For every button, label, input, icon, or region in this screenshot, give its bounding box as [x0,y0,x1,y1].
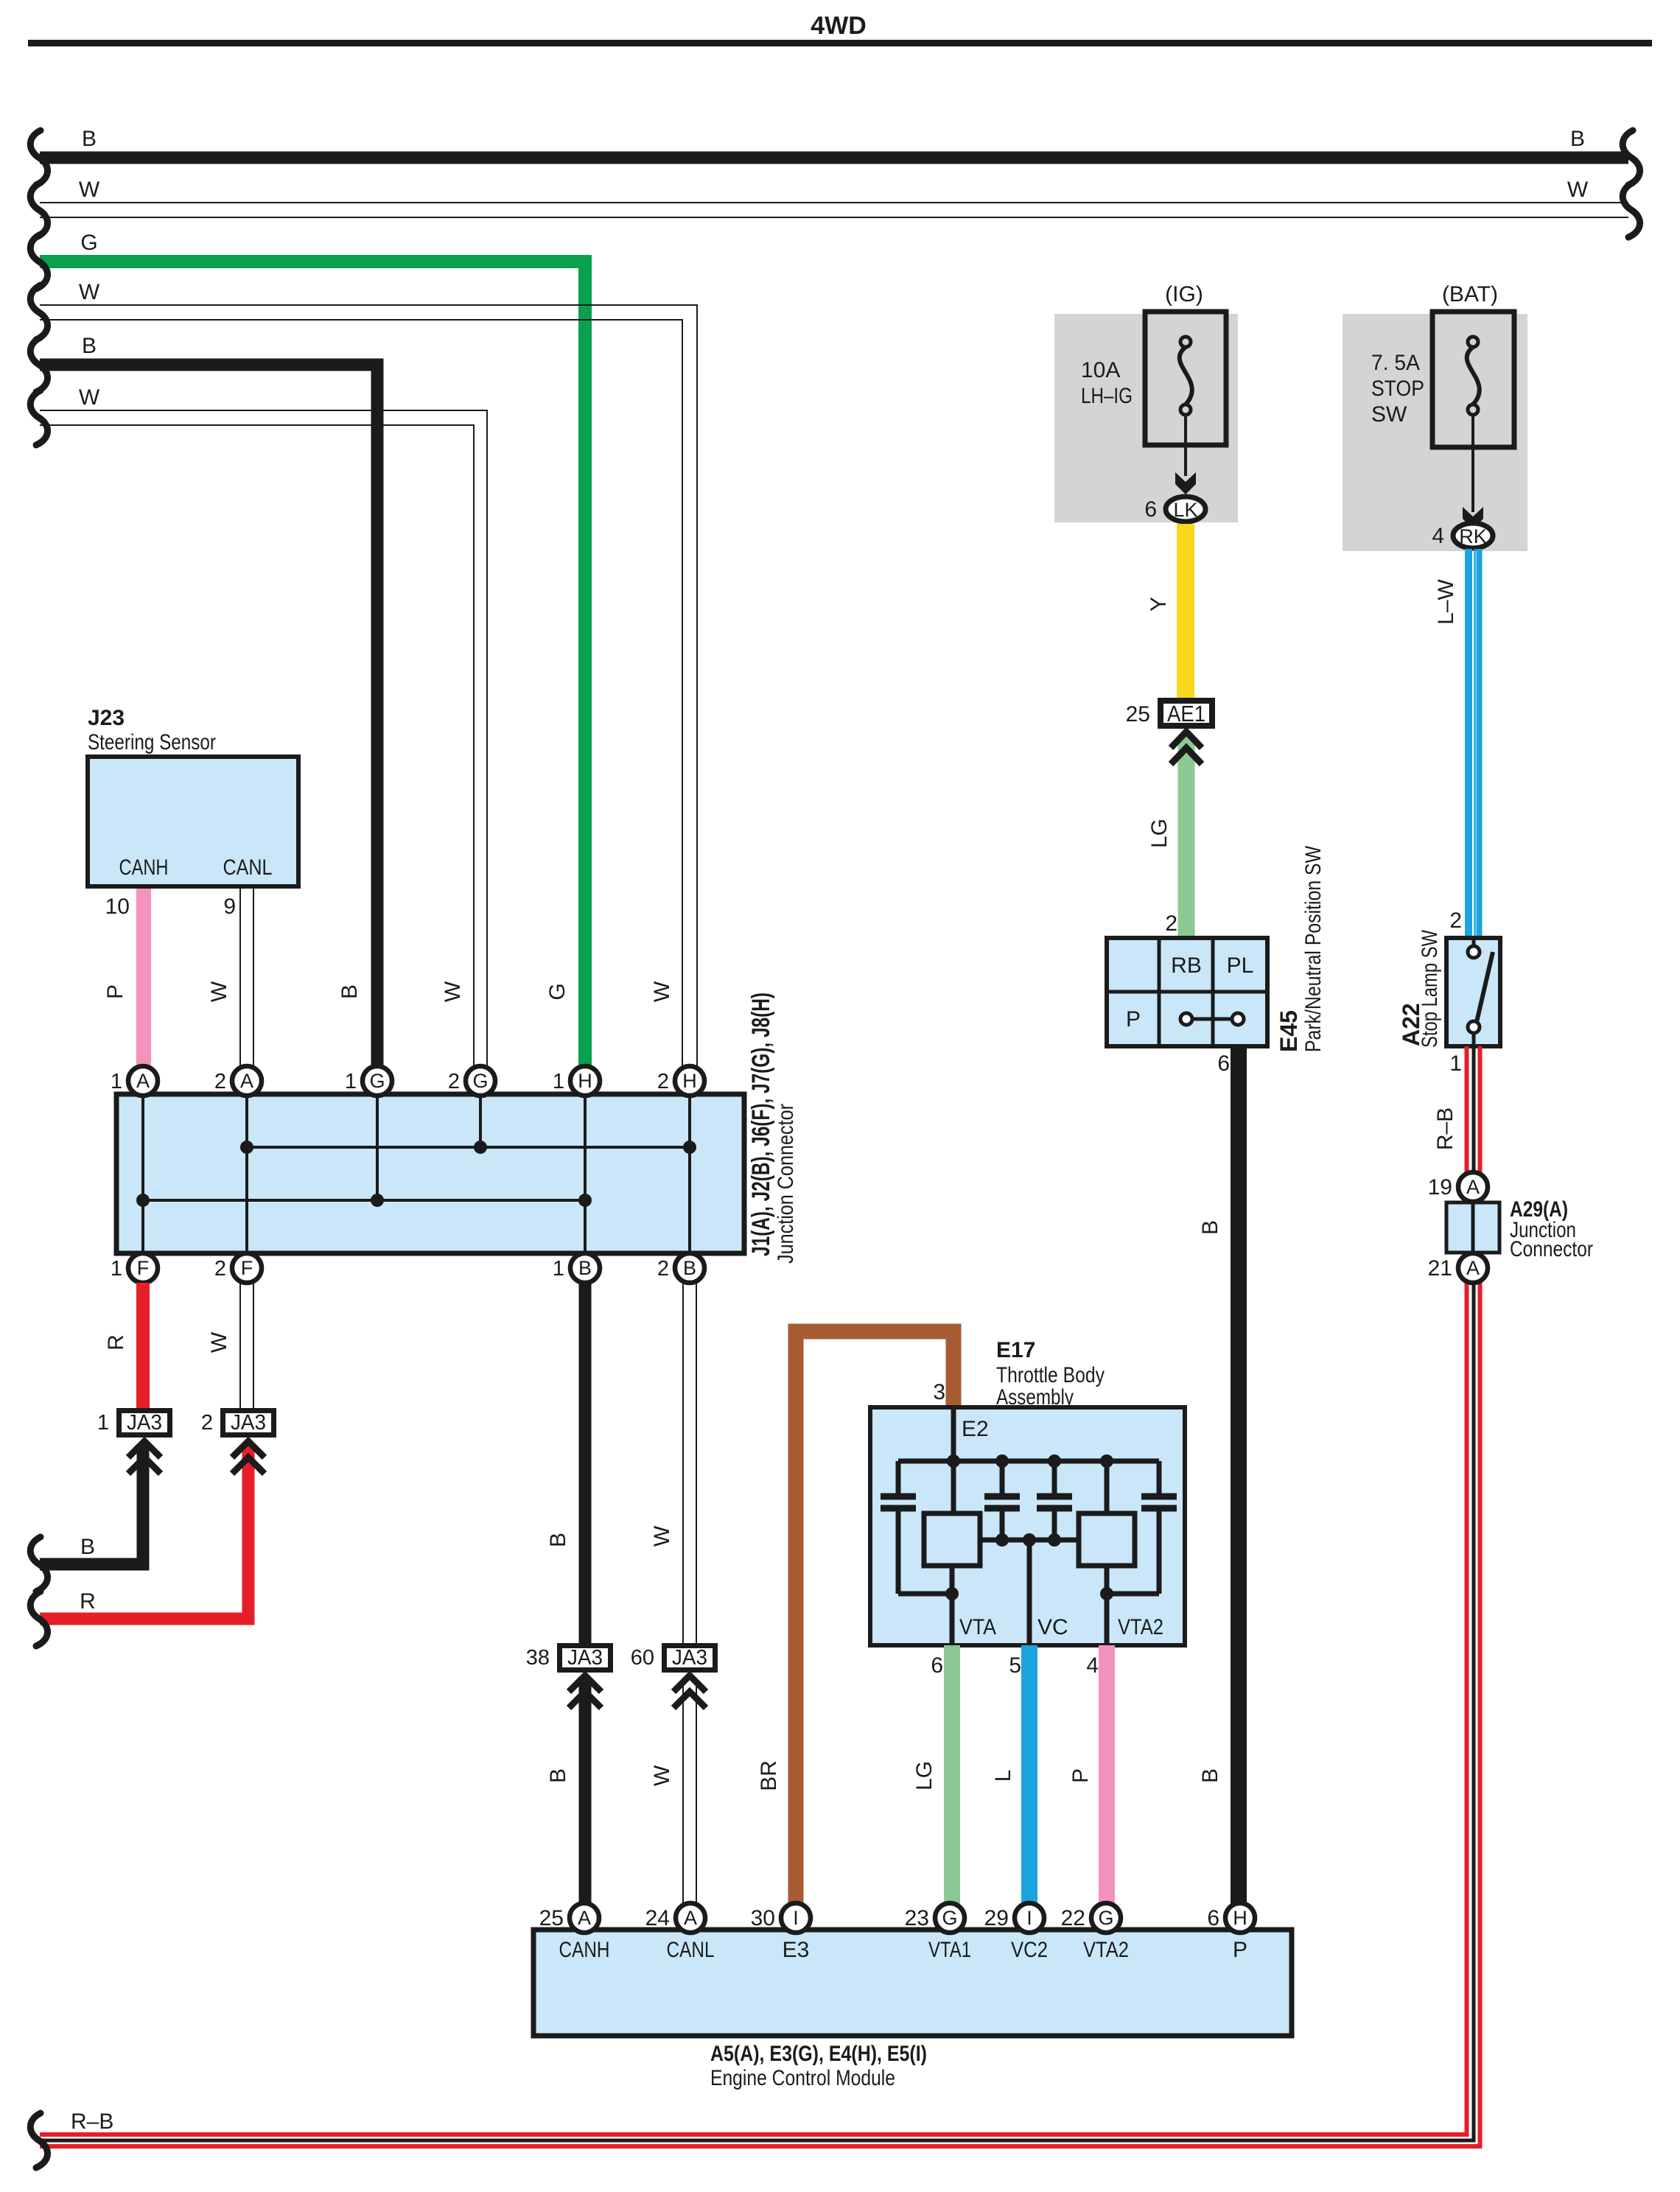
break left w2 [30,183,47,237]
wire W JA3-60 to ECM pin 24 (double line) [683,1678,696,1905]
connector pin 1F [128,1253,158,1283]
svg-text:A: A [1466,1257,1480,1279]
svg-text:CANL: CANL [223,855,273,880]
wire W to junction 2G (double line) [40,410,487,1068]
wire W junction 2F to JA3 pin 2 (double line) [240,1283,253,1411]
E17 junction dots [947,1454,960,1468]
svg-text:B: B [1570,127,1585,151]
svg-text:P: P [103,984,127,999]
svg-text:B: B [82,334,97,358]
connector pin 2A [232,1066,262,1096]
svg-text:G: G [942,1907,957,1929]
svg-text:B: B [80,1535,95,1559]
svg-text:SW: SW [1371,402,1407,427]
svg-text:A: A [578,1907,591,1929]
connector JA3 pin 38 box [560,1646,611,1670]
capacitor C2 [984,1496,1020,1508]
svg-text:21: 21 [1428,1256,1452,1281]
wire LG AE1 to E45 pin 2 [1178,737,1195,938]
break left w5 [30,337,47,392]
arrow into RK [1463,507,1483,529]
connector AE1 box [1161,701,1212,726]
fuse 7.5A element [1467,337,1480,415]
wire B from JA3 pin1 to left break [40,1444,143,1564]
arrow into LK [1175,472,1196,494]
component E45 Park/Neutral Position SW box [1107,938,1267,1046]
capacitor C3 [1037,1496,1072,1508]
connector JA3 pin 60 box [665,1646,715,1670]
svg-text:H: H [682,1070,697,1092]
wire W CANL to junction 2A (double line) [240,889,253,1068]
connector pin 2F [232,1253,262,1283]
svg-text:25: 25 [1126,702,1150,726]
svg-text:A: A [240,1070,253,1092]
svg-text:1: 1 [111,1257,122,1281]
svg-text:A: A [684,1907,697,1929]
break left R lower [30,1592,47,1646]
wire P E17 VTA2 to ECM pin22 [1099,1645,1115,1905]
svg-text:22: 22 [1061,1906,1085,1930]
sensor element VTA2 box [1079,1513,1135,1566]
svg-text:23: 23 [905,1906,929,1930]
wire B to junction 1G [40,365,377,1068]
chevron JA3-60 [673,1675,706,1708]
svg-text:9: 9 [223,894,236,919]
chevron JA3-2 [232,1441,265,1474]
svg-text:W: W [441,981,465,1002]
junction connector J1/J2/J6/J7/J8 box [116,1094,744,1253]
wire L E17 VC to ECM pin29 [1021,1645,1037,1905]
svg-text:B: B [683,1257,696,1279]
E45 cell grid [1107,938,1267,1046]
connector JA3 pin 1 box [119,1411,170,1435]
svg-text:E17: E17 [996,1338,1035,1362]
svg-text:Y: Y [1147,597,1171,612]
chevron JA3-38 [569,1675,601,1708]
svg-text:W: W [1567,178,1589,202]
capacitor C1 [881,1496,916,1508]
svg-text:E3: E3 [783,1938,810,1962]
fuse 10A element [1180,337,1192,415]
svg-text:E2: E2 [962,1417,989,1441]
svg-text:JA3: JA3 [672,1646,707,1670]
svg-text:6: 6 [931,1653,943,1678]
svg-text:E45: E45 [1275,1010,1302,1052]
svg-text:H: H [1233,1907,1247,1929]
svg-text:B: B [1198,1768,1222,1783]
wire BR ECM pin30 to E17 pin 3 [796,1331,953,1903]
connector A29(A) junction box [1446,1202,1499,1253]
svg-text:25: 25 [539,1906,564,1930]
fuse block background (BAT) [1343,314,1527,551]
svg-text:W: W [207,981,231,1002]
wire LG E17 VTA to ECM pin23 [944,1645,960,1905]
svg-text:6: 6 [1144,497,1157,522]
connector pin 2B [675,1253,704,1283]
svg-text:LG: LG [1147,819,1172,848]
svg-text:R–B: R–B [71,2109,113,2134]
break left w3 [30,234,47,289]
wire B junction 1B to JA3 pin 38 [579,1283,592,1646]
svg-text:6: 6 [1217,1051,1230,1076]
svg-text:3: 3 [933,1380,945,1404]
svg-text:VTA2: VTA2 [1118,1615,1163,1639]
svg-text:W: W [207,1331,231,1353]
wire L-W RK to A22 pin 2 [1469,549,1480,938]
svg-text:G: G [545,983,570,1000]
A29 internal wire [1471,1202,1475,1253]
svg-text:38: 38 [526,1646,550,1670]
svg-text:Throttle Body: Throttle Body [996,1363,1105,1387]
component E17 Throttle Body box [870,1407,1185,1645]
ECM pin 22G [1091,1903,1121,1933]
connector pin 2H [675,1066,704,1096]
capacitor C4 [1141,1496,1177,1508]
svg-text:F: F [241,1257,253,1279]
svg-text:B: B [1198,1220,1222,1235]
svg-text:2: 2 [448,1070,460,1093]
svg-text:G: G [80,231,97,255]
svg-text:Connector: Connector [1510,1237,1593,1261]
ECM pin 6H [1225,1903,1255,1933]
svg-text:10A: 10A [1081,358,1120,382]
svg-text:R: R [104,1334,128,1351]
svg-text:10: 10 [105,894,130,919]
connector pin 1A [128,1066,158,1096]
svg-text:7. 5A: 7. 5A [1371,351,1420,375]
svg-text:B: B [82,127,97,151]
svg-text:19: 19 [1428,1175,1452,1200]
component A22 Stop Lamp SW box [1446,938,1500,1046]
chevron JA3-1 [128,1441,161,1474]
svg-text:Engine Control Module: Engine Control Module [710,2066,895,2090]
svg-text:P: P [1233,1938,1247,1962]
svg-text:LG: LG [912,1761,937,1790]
svg-text:24: 24 [645,1906,670,1930]
svg-text:(BAT): (BAT) [1442,282,1498,307]
svg-text:W: W [79,178,100,202]
break right w2 [1623,183,1639,237]
svg-text:VTA1: VTA1 [928,1938,971,1962]
svg-text:Steering Sensor: Steering Sensor [88,730,216,754]
break left R-B [30,2113,47,2168]
svg-text:VC: VC [1037,1615,1068,1639]
wire W to junction 2H (double line) [40,305,697,1068]
connector LK oval [1166,497,1205,522]
svg-text:1: 1 [111,1070,122,1093]
E17 internal bus and branches [898,1407,1159,1645]
wire B JA3-38 to ECM pin 25 [579,1678,592,1905]
svg-text:CANH: CANH [119,855,169,880]
svg-text:2: 2 [201,1411,213,1435]
ECM pin 30I [781,1903,811,1933]
svg-text:B: B [578,1257,592,1279]
svg-text:Stop Lamp SW: Stop Lamp SW [1418,929,1442,1048]
svg-text:L–W: L–W [1434,578,1458,624]
svg-text:1: 1 [97,1411,109,1435]
svg-text:2: 2 [214,1070,226,1093]
svg-text:W: W [650,1525,674,1547]
A22 switch symbol [1468,938,1493,1046]
svg-text:VC2: VC2 [1011,1938,1048,1962]
E45 switch contact [1180,1013,1244,1025]
svg-text:2: 2 [657,1070,669,1093]
svg-text:L: L [991,1770,1015,1782]
svg-text:1: 1 [1449,1051,1462,1076]
wire fuse to RK [1471,415,1474,512]
svg-text:W: W [79,385,100,410]
svg-text:CANL: CANL [667,1938,715,1962]
svg-text:G: G [1098,1907,1113,1929]
component ECM box [533,1930,1292,2036]
svg-text:2: 2 [1449,908,1462,933]
break right w1 [1623,130,1639,185]
svg-text:VTA2: VTA2 [1083,1938,1129,1962]
svg-text:A: A [136,1070,150,1092]
wire B E45 pin6 to ECM pin6 [1231,1046,1247,1905]
break left w6 [30,391,47,445]
svg-text:LH–IG: LH–IG [1081,384,1133,408]
svg-text:LK: LK [1173,499,1197,521]
wire W (second, double line) [40,203,1628,217]
svg-text:RB: RB [1171,953,1202,978]
svg-text:JA3: JA3 [567,1646,603,1670]
svg-text:W: W [650,981,674,1002]
svg-text:RK: RK [1459,525,1487,547]
fuse block background (IG) [1054,314,1238,522]
svg-text:W: W [650,1765,674,1786]
svg-text:H: H [578,1070,592,1092]
svg-text:P: P [1068,1768,1093,1783]
ECM pin 29I [1015,1903,1044,1933]
wire Y LK to AE1 [1177,524,1194,701]
junction internal wires [143,1081,690,1268]
svg-text:STOP: STOP [1371,377,1424,401]
connector RK oval [1453,523,1493,548]
svg-text:G: G [369,1070,385,1092]
svg-text:G: G [472,1070,488,1092]
wire R-B A22 to ECM area and bottom break [40,1046,1480,2146]
header rule [28,40,1652,46]
svg-text:1: 1 [553,1257,564,1281]
svg-text:JA3: JA3 [231,1411,266,1435]
chevron AE1 [1171,732,1202,764]
svg-text:P: P [1126,1007,1141,1032]
junction nodes row 1 [240,1141,253,1154]
wire fuse to LK [1184,415,1187,476]
break left B lower [30,1537,47,1592]
svg-text:A: A [1466,1176,1480,1198]
svg-text:29: 29 [984,1906,1009,1930]
connector pin 1G [363,1066,392,1096]
wire W junction 2B to JA3 pin 60 (double line) [683,1283,696,1646]
svg-text:F: F [137,1257,150,1279]
svg-text:J23: J23 [88,706,125,730]
svg-text:Park/Neutral Position SW: Park/Neutral Position SW [1301,845,1326,1052]
svg-text:1: 1 [345,1070,357,1093]
component J23 Steering Sensor box [88,757,298,886]
break left w1 [30,130,47,185]
break left w4 [30,285,47,340]
junction nodes row 2 [136,1194,150,1207]
ECM pin 24A [676,1903,705,1933]
wire R from JA3 pin2 to left break [40,1444,248,1619]
svg-text:W: W [79,280,100,304]
svg-text:I: I [793,1907,799,1929]
svg-text:B: B [337,984,362,999]
svg-text:BR: BR [757,1760,781,1791]
svg-text:60: 60 [631,1646,654,1670]
svg-text:AE1: AE1 [1167,701,1205,726]
svg-text:2: 2 [1165,911,1177,936]
svg-text:PL: PL [1227,953,1254,978]
ECM pin 25A [570,1903,599,1933]
wire B main (top) [40,152,1628,164]
fuse 7.5A STOP SW box [1432,312,1514,447]
connector pin 2G [466,1066,495,1096]
svg-text:30: 30 [751,1906,775,1930]
sensor element VTA box [924,1513,980,1566]
svg-text:R–B: R–B [1433,1107,1457,1150]
svg-text:4: 4 [1432,524,1444,548]
connector pin 1H [570,1066,600,1096]
svg-text:R: R [80,1589,96,1614]
connector pin 19A [1458,1172,1488,1202]
fuse 10A LH-IG box [1145,312,1226,445]
svg-text:B: B [546,1768,570,1783]
svg-text:4WD: 4WD [811,12,867,40]
svg-text:6: 6 [1207,1906,1219,1930]
svg-text:J1(A), J2(B), J6(F), J7(G), J8: J1(A), J2(B), J6(F), J7(G), J8(H) [747,992,775,1256]
wire P CANH to junction 1A [136,889,151,1068]
svg-text:I: I [1026,1907,1032,1929]
svg-text:5: 5 [1009,1653,1021,1678]
svg-text:B: B [546,1533,570,1547]
svg-text:2: 2 [657,1257,669,1281]
svg-text:1: 1 [553,1070,564,1093]
svg-text:Junction Connector: Junction Connector [774,1104,798,1264]
wire R junction 1F to JA3 pin 1 [136,1283,150,1411]
connector JA3 pin 2 box [223,1411,274,1435]
connector pin 1B [570,1253,600,1283]
wire G to junction 1H [40,262,585,1068]
svg-text:2: 2 [214,1257,226,1281]
svg-text:JA3: JA3 [127,1411,162,1435]
svg-text:VTA: VTA [959,1615,996,1639]
svg-text:(IG): (IG) [1165,282,1203,307]
connector pin 21A [1458,1253,1488,1283]
ECM pin 23G [935,1903,965,1933]
svg-text:4: 4 [1086,1653,1099,1678]
svg-text:CANH: CANH [559,1938,610,1962]
svg-text:A5(A), E3(G), E4(H), E5(I): A5(A), E3(G), E4(H), E5(I) [710,2042,927,2066]
